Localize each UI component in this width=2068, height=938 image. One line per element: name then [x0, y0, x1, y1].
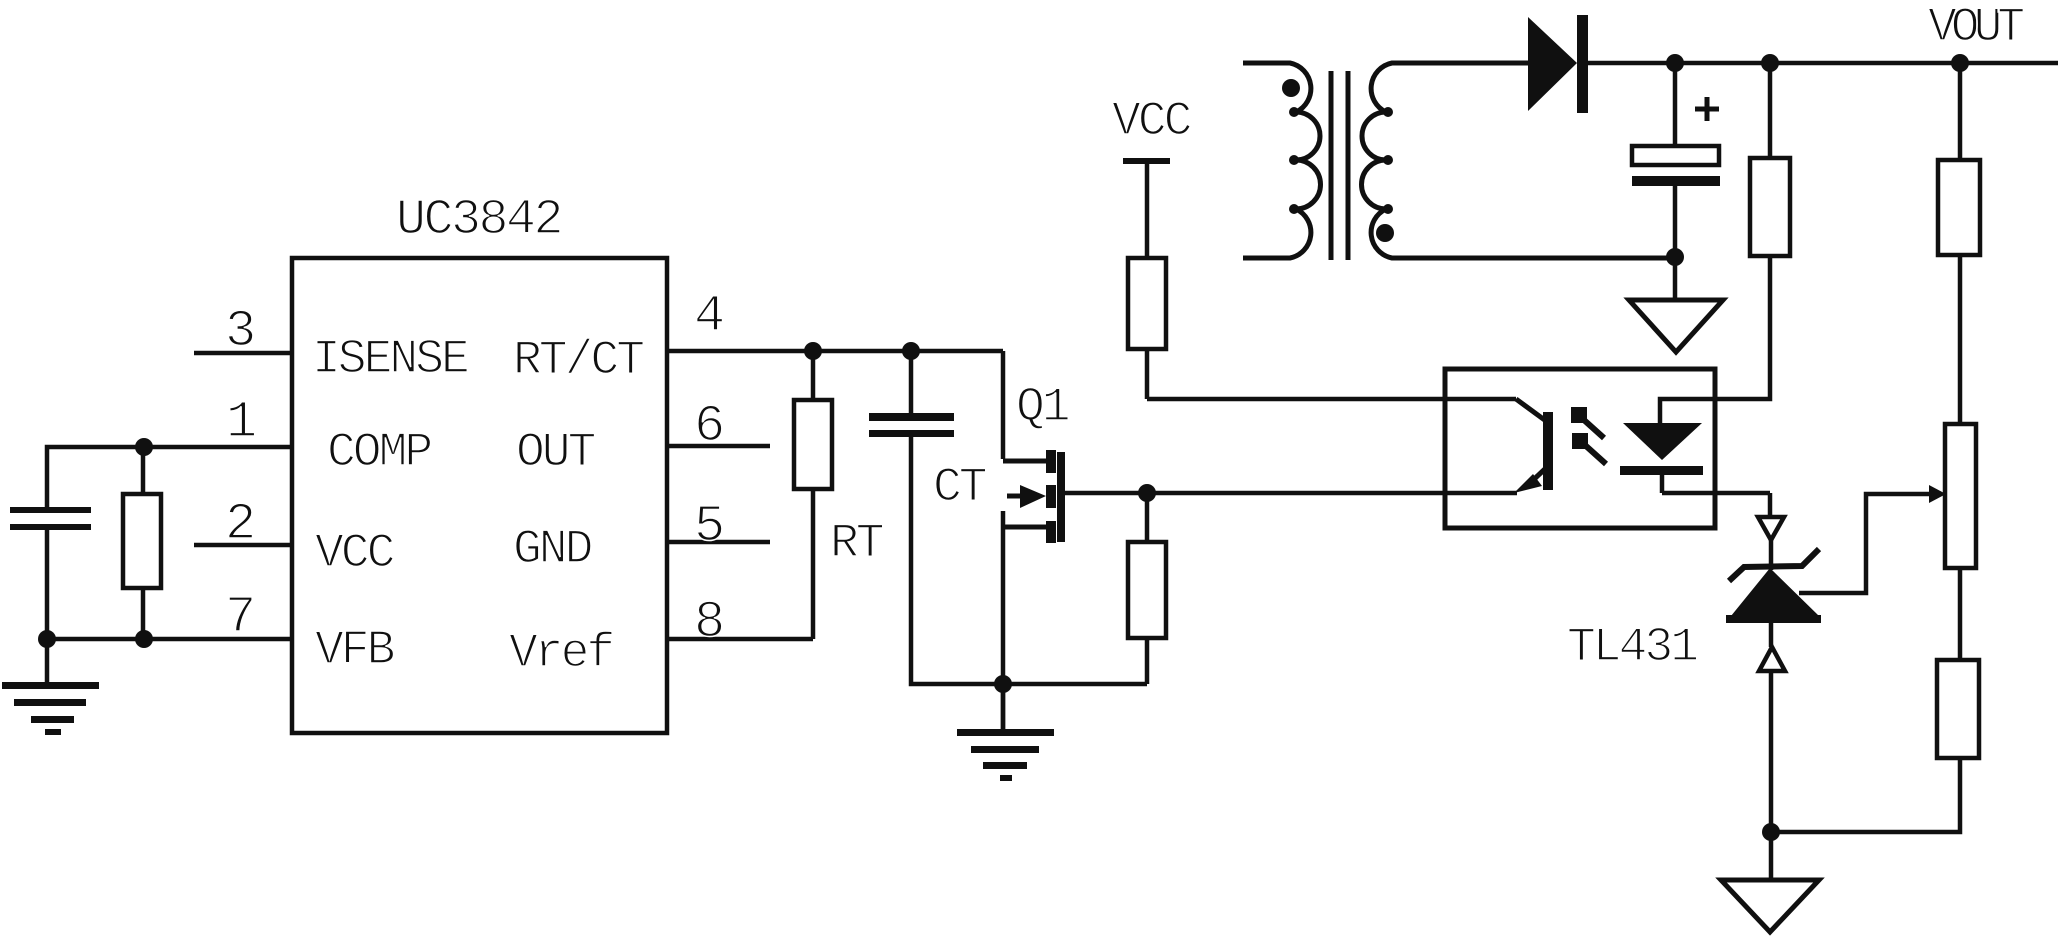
node dot COMP junction [135, 438, 153, 456]
resistor R1 feedback [123, 447, 161, 639]
transformer T1 primary cusp nubs [1289, 107, 1299, 214]
optocoupler U2 light arrows [1571, 407, 1606, 464]
ground G3 triangle secondary [1629, 257, 1723, 352]
ground G1 left earth [2, 639, 99, 735]
regulator U3 TL431 [1567, 517, 1821, 880]
svg-text:5: 5 [694, 497, 725, 556]
resistor RT [794, 351, 883, 639]
wire LED cathode down to TL431 [1768, 493, 1773, 517]
optocoupler U2 phototransistor [1514, 399, 1553, 493]
transformer T1 secondary phase dot [1376, 224, 1394, 242]
svg-text:1: 1 [226, 393, 257, 452]
potentiometer RP [1945, 424, 1976, 660]
resistor R4 LED feed [1660, 63, 1790, 423]
resistor R2 source [1128, 493, 1166, 684]
node dot source resistor junction [1138, 484, 1156, 502]
pin 8 wire Vref [667, 593, 813, 652]
node dot TL431 anode junction [1762, 823, 1780, 841]
pin 2 wire VCC [194, 495, 292, 554]
pin 5 wire GND stub [667, 497, 770, 556]
capacitor C1 on COMP [10, 507, 91, 639]
optocoupler U2 LED [1620, 423, 1770, 493]
capacitor C2 electrolytic [1632, 63, 1720, 257]
wire VOUT rail [1588, 61, 2058, 66]
wire TL431 ref to potentiometer [1799, 485, 1946, 593]
svg-text:ISENSE: ISENSE [312, 333, 468, 387]
resistor R6 divider bottom [1771, 660, 1979, 832]
optocoupler U2 box [1445, 369, 1715, 528]
svg-text:RT: RT [830, 517, 883, 571]
svg-text:RT/CT: RT/CT [513, 334, 643, 388]
transformer T1 primary winding [1243, 63, 1321, 258]
svg-text:VCC: VCC [315, 527, 394, 581]
svg-text:Vref: Vref [509, 627, 612, 681]
wire VCC resistor to optocoupler collector [1147, 397, 1516, 402]
svg-text:2: 2 [225, 495, 256, 554]
wire Q1 gate to optocoupler emitter [1065, 491, 1517, 496]
node dot VFB junction resistor [135, 630, 153, 648]
transistor Q1 MOSFET [1003, 351, 1069, 732]
svg-text:UC3842: UC3842 [396, 192, 561, 249]
pin 6 wire OUT stub [667, 397, 770, 456]
node VCC terminal [1112, 95, 1191, 259]
svg-text:VFB: VFB [315, 624, 394, 678]
node dot VFB junction left [38, 630, 56, 648]
svg-text:Q1: Q1 [1016, 381, 1069, 435]
svg-text:COMP: COMP [327, 426, 431, 480]
node dot CT top [902, 342, 920, 360]
capacitor CT [869, 351, 1147, 684]
pin 3 wire ISENSE [194, 302, 292, 361]
node dot secondary return junction [1666, 248, 1684, 266]
diode D1 rectifier [1528, 15, 1588, 113]
pin 1 wire COMP [47, 393, 292, 507]
transformer T1 secondary cusp nubs [1383, 107, 1393, 214]
transformer T1 primary phase dot [1282, 79, 1300, 97]
svg-text:4: 4 [694, 287, 725, 346]
svg-text:7: 7 [225, 588, 256, 647]
transformer T1 core [1331, 71, 1348, 260]
svg-text:CT: CT [933, 461, 986, 515]
IC U1 UC3842 body [292, 192, 667, 733]
svg-text:3: 3 [225, 302, 256, 361]
node dot RT top [804, 342, 822, 360]
svg-text:6: 6 [694, 397, 725, 456]
ground G2 earth below Q1 [957, 684, 1054, 781]
transformer T1 secondary winding [1362, 63, 1676, 258]
resistor R3 VCC feed [1128, 258, 1166, 399]
node dot rail cap junction [1666, 54, 1684, 72]
svg-text:VCC: VCC [1112, 95, 1191, 149]
svg-text:OUT: OUT [516, 426, 595, 480]
svg-text:8: 8 [694, 593, 725, 652]
svg-text:GND: GND [513, 523, 592, 577]
pin 7 wire VFB [47, 588, 292, 647]
resistor R5 divider top [1938, 63, 1980, 425]
pin 4 wire RT/CT [667, 287, 1003, 351]
node dot rail divider junction [1951, 54, 1969, 72]
ground G4 triangle bottom right [1721, 880, 1819, 932]
svg-text:VOUT: VOUT [1928, 1, 2023, 55]
node dot rail R4 junction [1761, 54, 1779, 72]
node dot Q1 source ground junction [994, 675, 1012, 693]
svg-text:TL431: TL431 [1567, 621, 1697, 675]
